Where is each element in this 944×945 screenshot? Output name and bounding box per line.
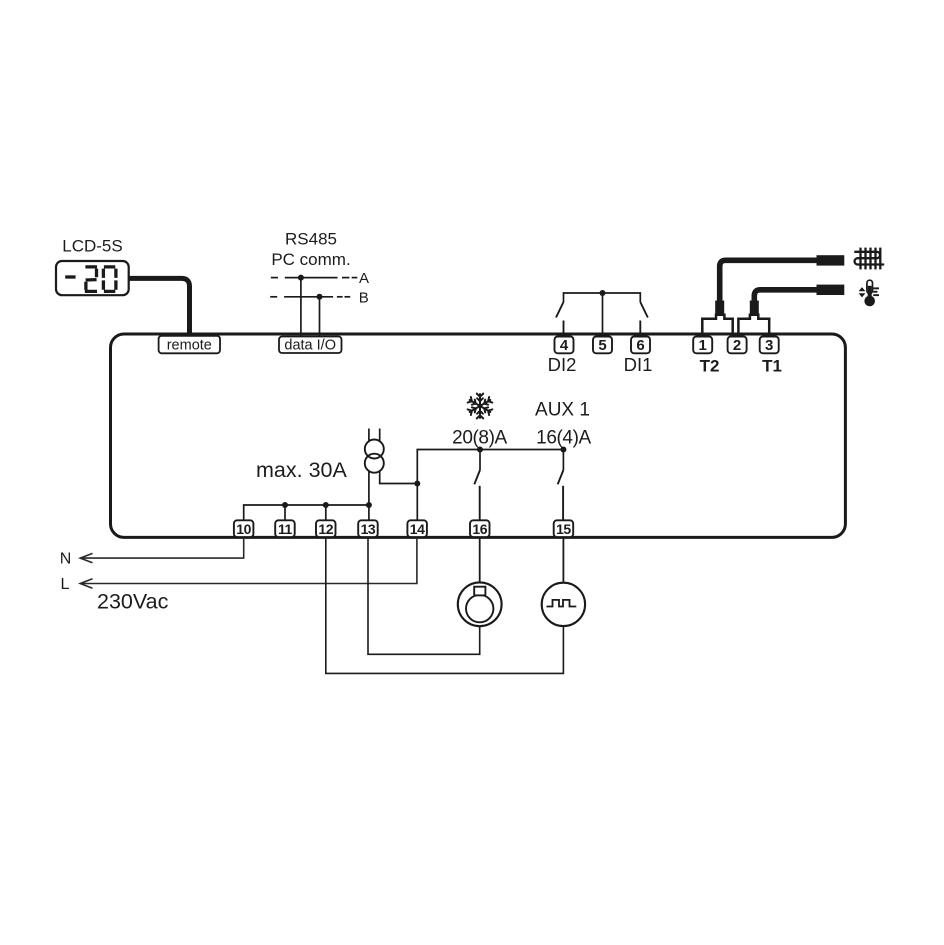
terminal 1 — [693, 337, 712, 354]
probe cable T1 — [754, 290, 817, 305]
svg-text:6: 6 — [636, 337, 644, 354]
terminal 16 — [470, 520, 490, 537]
svg-text:RS485: RS485 — [285, 230, 337, 249]
wire to terminal 5 — [602, 293, 604, 338]
svg-text:3: 3 — [765, 337, 773, 354]
svg-text:L: L — [61, 576, 70, 593]
controller body — [111, 334, 846, 537]
transformer secondary lead left / wire to terminal 13 — [368, 471, 370, 522]
svg-text:20(8)A: 20(8)A — [452, 427, 507, 448]
transformer top leads — [368, 429, 370, 442]
node above 16 — [477, 447, 483, 453]
svg-text:PC comm.: PC comm. — [271, 250, 350, 269]
svg-text:AUX 1: AUX 1 — [535, 400, 590, 421]
svg-text:remote: remote — [167, 338, 212, 354]
switch DI1 stub — [639, 321, 641, 339]
wire lamp to terminal 13 — [368, 537, 480, 654]
terminal remote — [159, 336, 220, 354]
terminal 10 — [234, 520, 254, 537]
node at 11 — [282, 502, 288, 508]
probe plug T1 — [738, 315, 769, 335]
relay contact aux drop — [562, 450, 564, 471]
svg-text:14: 14 — [410, 521, 425, 537]
terminal 5 — [593, 337, 612, 354]
svg-text:A: A — [359, 270, 369, 287]
node DI bus — [600, 290, 606, 296]
svg-text:T1: T1 — [762, 357, 782, 376]
wire pulse module to terminal 12 — [326, 537, 564, 673]
node on line B — [317, 294, 323, 300]
svg-text:B: B — [359, 290, 369, 307]
terminal 11 — [275, 520, 295, 537]
transformer — [365, 440, 384, 459]
svg-text:1: 1 — [699, 337, 707, 354]
wire bus to terminal 11 — [284, 505, 286, 521]
terminal 6 — [631, 337, 650, 354]
node at 13 — [366, 502, 372, 508]
svg-text:LCD-5S: LCD-5S — [62, 237, 122, 256]
terminal 14 — [407, 520, 427, 537]
terminal 3 — [760, 337, 779, 354]
svg-text:10: 10 — [236, 521, 251, 537]
RS485 line A (dashed) — [271, 277, 358, 279]
remote display cable — [128, 278, 190, 334]
svg-text:max. 30A: max. 30A — [256, 458, 347, 482]
transformer secondary lead right — [380, 471, 418, 484]
wire terminal 14 riser and relay supply line — [417, 450, 563, 522]
plug T1 pin — [750, 301, 759, 317]
terminal data I/O — [279, 337, 342, 354]
lamp load (defrost) — [458, 582, 502, 626]
arrowhead L — [80, 579, 92, 588]
terminal 4 — [555, 337, 574, 354]
relay contact compressor stub — [479, 486, 481, 521]
terminal 2 — [728, 337, 747, 354]
switch DI2 stub — [563, 321, 565, 339]
svg-text:16: 16 — [472, 521, 487, 537]
svg-text:12: 12 — [318, 521, 333, 537]
terminal 13 — [358, 520, 378, 537]
supply bus wire — [244, 505, 369, 521]
node at 12 — [323, 502, 329, 508]
RS485 line B (dashed) — [270, 296, 350, 298]
probe plug T2 — [702, 315, 732, 335]
wire bus to terminal 12 — [325, 505, 327, 521]
snowflake icon — [468, 394, 493, 419]
node at 14 riser — [414, 481, 420, 487]
relay contact compressor arm — [474, 470, 480, 484]
probe T2 cable end — [817, 255, 845, 265]
svg-text:13: 13 — [361, 521, 376, 537]
wire 16 to lamp — [479, 537, 481, 582]
node above 15 — [560, 447, 566, 453]
wire A to data I/O — [300, 278, 302, 338]
probe T1 cable end — [817, 285, 845, 295]
terminal 12 — [316, 520, 336, 537]
node on line A — [298, 275, 304, 281]
svg-text:N: N — [60, 551, 72, 568]
wire 15 to pulse module — [562, 537, 564, 583]
thermostat probe icon — [859, 280, 879, 306]
svg-text:T2: T2 — [700, 357, 720, 376]
relay contact aux stub — [562, 486, 564, 521]
svg-text:11: 11 — [278, 521, 293, 537]
svg-text:16(4)A: 16(4)A — [536, 427, 591, 448]
7-segment reading -20 — [65, 267, 116, 292]
wire terminal 14 below — [81, 537, 417, 584]
relay contact aux arm — [558, 470, 564, 484]
svg-text:15: 15 — [556, 521, 571, 537]
evaporator coil icon — [854, 248, 884, 270]
svg-text:5: 5 — [598, 337, 606, 354]
switch DI2 arm — [556, 302, 564, 318]
switch DI1 arm — [640, 302, 648, 318]
svg-text:DI1: DI1 — [624, 354, 653, 375]
LCD display module — [56, 261, 129, 295]
svg-text:230Vac: 230Vac — [97, 590, 169, 614]
wire B to data I/O — [319, 297, 321, 338]
DI bus wire — [564, 293, 641, 302]
svg-text:2: 2 — [733, 337, 741, 354]
relay contact compressor drop — [479, 450, 481, 471]
svg-text:DI2: DI2 — [548, 354, 577, 375]
pulse output module — [542, 583, 585, 626]
plug T2 pin — [715, 301, 724, 317]
svg-text:4: 4 — [560, 337, 569, 354]
svg-text:data I/O: data I/O — [284, 338, 336, 354]
terminal 15 — [554, 520, 574, 537]
wire terminal 10 below — [81, 537, 244, 558]
square wave symbol — [547, 600, 577, 607]
arrowhead N — [80, 553, 92, 562]
probe cable T2 — [720, 260, 817, 305]
